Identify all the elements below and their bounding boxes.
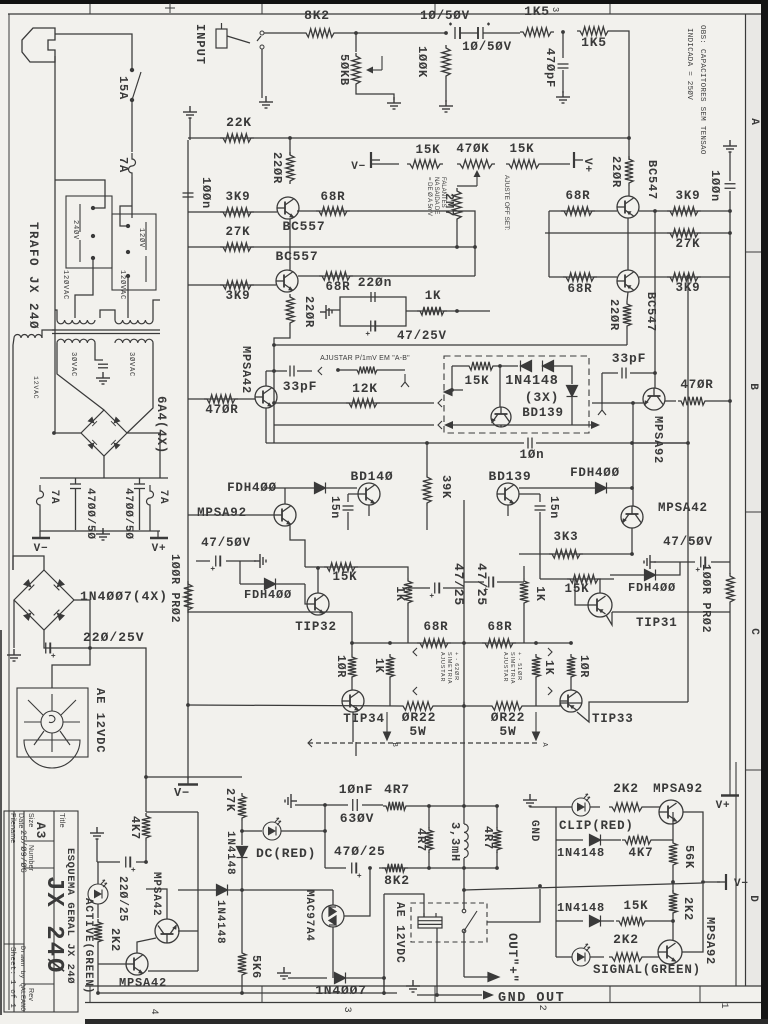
resistor 56K (669, 840, 677, 868)
wire center to relay (463, 868, 465, 909)
node filter bot a (427, 866, 431, 870)
wire 2K2 to mpsa92 (645, 806, 660, 808)
wire caps bottom join (40, 509, 160, 531)
svg-text:GND OUT: GND OUT (498, 991, 565, 1006)
wire 10nF row (295, 804, 348, 806)
trim arrow left b (413, 687, 417, 695)
node 15K signal (671, 919, 675, 923)
svg-text:15n: 15n (328, 496, 341, 519)
node feedback top (686, 275, 690, 279)
capacitor 47/25 b (484, 577, 494, 592)
capacitor 220n (371, 292, 375, 302)
ground pot (387, 97, 401, 109)
svg-text:1K: 1K (372, 658, 385, 673)
node bottom rail c (382, 991, 386, 995)
svg-text:1N4ØØ7: 1N4ØØ7 (315, 983, 367, 998)
svg-text:MPSA42: MPSA42 (658, 501, 708, 515)
wire signal led right (590, 956, 604, 958)
wire signal diode row (556, 920, 583, 922)
wire mpsa92c to rail (683, 812, 703, 880)
svg-text:V−: V− (734, 878, 749, 890)
svg-text:12K: 12K (352, 381, 378, 396)
border tick top (261, 4, 263, 14)
terminal V- stem (39, 531, 41, 538)
resistor 15K signal (616, 917, 648, 925)
bridge diode 1 (87, 416, 97, 426)
potentiometer 470K (457, 160, 495, 168)
wire bd139 base link (519, 493, 540, 495)
wire TIP31 top (599, 579, 601, 593)
node vas rail top (653, 209, 657, 213)
wire 10R left bottom (351, 680, 353, 690)
transformer primary winding 2 (115, 320, 153, 324)
svg-text:Rev: Rev (27, 988, 34, 1001)
resistor 220R b (286, 294, 294, 326)
ground 47/50 left (254, 554, 266, 568)
ground 100n right (723, 140, 737, 152)
resistor 68R mid right (482, 639, 516, 647)
svg-text:68R: 68R (568, 282, 593, 296)
diode 1N4148 clip (590, 835, 601, 846)
capacitor 33pF right (622, 368, 626, 379)
wire protect left rail (555, 807, 557, 957)
wire 4R7c leg2 (496, 852, 498, 868)
terminal V+ bottom (721, 770, 739, 796)
node 1K5 rail (627, 136, 631, 140)
border tick right (745, 511, 761, 513)
svg-text:AJUSTAR: AJUSTAR (439, 652, 445, 682)
resistor 3K9 b (220, 281, 254, 289)
wire relay coil down (436, 928, 438, 995)
resistor 220R c (625, 156, 633, 186)
resistor 1K left low (386, 654, 394, 680)
svg-text:Filename: Filename (9, 813, 16, 843)
node relay out (538, 884, 542, 888)
svg-text:8K2: 8K2 (384, 873, 410, 888)
border frame bottom outer line (85, 1002, 761, 1004)
resistor 4R7 a (383, 802, 409, 810)
wire 1K5 to collector rail (611, 31, 629, 160)
svg-text:A3: A3 (33, 822, 48, 839)
wire 33pF row left (266, 370, 287, 372)
resistor 10R left (348, 654, 356, 680)
wire clip gnd stem (530, 806, 556, 807)
wire fdh400 d row (610, 562, 680, 575)
wire 220R d top lead (627, 292, 628, 301)
resistor 68R c (561, 207, 595, 215)
node 470pF top (561, 30, 565, 34)
border tick right (745, 769, 761, 771)
svg-text:15K: 15K (624, 899, 649, 913)
node filter bot c (495, 866, 499, 870)
border frame right line lower (735, 762, 737, 986)
node 27K 2M7 (455, 245, 459, 249)
wire mid out rail (702, 881, 720, 883)
fuse 7A V+ rail (147, 485, 154, 509)
capacitor 15n right (535, 506, 546, 510)
svg-text:1N4148: 1N4148 (214, 900, 226, 944)
relay AE 12VDC dashed box (411, 903, 487, 942)
capacitor 10nF (353, 799, 358, 811)
svg-text:1ØØn: 1ØØn (708, 170, 722, 202)
svg-text:47/25: 47/25 (474, 563, 489, 606)
svg-text:OUT"+": OUT"+" (505, 933, 519, 983)
wire protect gnd (96, 839, 98, 862)
wire triac gate (344, 868, 370, 916)
switch 15A (130, 66, 141, 104)
wire 68R d row (549, 276, 617, 278)
svg-text:15n: 15n (547, 496, 560, 519)
transistor BC557 a (277, 197, 299, 219)
capacitor 47/25V a (366, 321, 376, 336)
svg-text:1K5: 1K5 (524, 4, 550, 19)
border tick top (434, 4, 436, 14)
svg-text:2K2: 2K2 (613, 932, 639, 947)
wire clip diode row (556, 839, 583, 841)
wire 2K2 sig to mpsa (645, 956, 659, 958)
svg-text:FDH4ØØ: FDH4ØØ (227, 481, 277, 495)
LED CLIP red (572, 794, 590, 816)
resistor 68R d (563, 273, 597, 281)
break arrow 33pF right (598, 402, 606, 415)
svg-text:JX 24Ø: JX 24Ø (40, 876, 67, 974)
wire 100K bottom (445, 79, 447, 102)
node ajustar (336, 368, 340, 372)
capacitor 4700/50 left (70, 478, 81, 530)
wire 27K row right (545, 232, 730, 234)
wire signal led left (556, 956, 572, 958)
transistor BD139 servo (491, 407, 511, 427)
node 100K top (444, 31, 448, 35)
node out rail bus (686, 441, 690, 445)
wire servo bottom row (452, 424, 592, 426)
wire plug to switch (55, 34, 132, 66)
wire jack contact stub (257, 36, 261, 41)
node TIP32 top (316, 566, 320, 570)
svg-text:3K9: 3K9 (226, 190, 251, 204)
svg-text:47ØØ/5Ø: 47ØØ/5Ø (122, 488, 134, 540)
node fdh400 right (630, 486, 634, 490)
resistor 15K servo (466, 362, 496, 370)
svg-text:1ØØK: 1ØØK (415, 46, 429, 78)
border frame right line (745, 14, 747, 986)
measure arrow down left (384, 712, 391, 740)
wire led active bottom (97, 904, 99, 918)
resistor 68R b (319, 272, 353, 280)
svg-text:1Ø/5ØV: 1Ø/5ØV (462, 40, 512, 54)
transistor TIP31 (588, 593, 612, 617)
wire aux bridge top (13, 556, 44, 570)
border frame top line (8, 13, 761, 15)
svg-text:MPSA42: MPSA42 (150, 872, 162, 916)
resistor 22K (220, 134, 254, 142)
capacitor 10/50V pair (449, 23, 490, 40)
svg-text:12ØVAC: 12ØVAC (61, 270, 70, 300)
wire secondary 2 ends (127, 343, 153, 433)
transformer secondary winding 1 (57, 339, 95, 343)
wire 2M7 down (456, 222, 458, 247)
transistor TIP34 (342, 690, 364, 712)
svg-text:OBS: CAPACITORES SEM TENSAO: OBS: CAPACITORES SEM TENSAO (698, 25, 706, 155)
trim arrow right b (548, 687, 552, 695)
transistor MPSA92 d (658, 940, 682, 964)
border tick top (89, 4, 91, 14)
wire BC547 a-b link (627, 218, 629, 270)
wire primary winding 2 left (100, 310, 115, 320)
capacitor 15n left (343, 506, 354, 510)
svg-text:15K: 15K (565, 582, 590, 596)
svg-text:24ØV: 24ØV (71, 220, 80, 240)
svg-text:SIMETRIA: SIMETRIA (509, 652, 515, 684)
wire mpsa92d to rail (682, 884, 703, 952)
svg-text:BD139: BD139 (488, 469, 531, 484)
svg-text:47ØØ/5Ø: 47ØØ/5Ø (84, 488, 96, 540)
wire MPSA92 right collector (665, 400, 676, 402)
wire 3K9 d row (639, 276, 730, 278)
wire 3K9 b row (188, 284, 276, 286)
wire MPSA42 right down (631, 528, 633, 554)
svg-text:BC547: BC547 (644, 292, 658, 332)
resistor 1K mid right (520, 578, 528, 606)
wire 12VAC down (13, 338, 14, 570)
wire cap left (97, 861, 120, 863)
wire 4R7b leg2 (428, 852, 430, 868)
node filter top b (462, 804, 466, 808)
wire 15K right row (540, 578, 614, 580)
wire 4R7c legs (496, 806, 498, 828)
relay coil (418, 913, 442, 928)
svg-text:V−: V− (351, 161, 366, 173)
wire mpsa b right (178, 930, 198, 932)
svg-text:56K: 56K (682, 845, 696, 869)
resistor 2K2 active (94, 919, 102, 945)
wire center tap down (463, 702, 465, 806)
border tick bottom (89, 986, 91, 1002)
wire left rail (187, 140, 189, 779)
svg-text:BC547: BC547 (645, 160, 659, 200)
svg-text:4R7: 4R7 (414, 828, 428, 852)
servo bottom left arrow (444, 421, 453, 429)
wire 0R22 right lead (525, 703, 582, 706)
wire 470pF top (562, 32, 564, 58)
svg-text:12VAC: 12VAC (32, 376, 39, 400)
svg-text:1Ø/5ØV: 1Ø/5ØV (420, 9, 470, 23)
diode 1N4007 protect (335, 973, 346, 984)
wire relay right (487, 889, 540, 922)
node out branch (462, 888, 466, 892)
wire dashed measure (308, 742, 540, 744)
wire 3K9 a row (188, 211, 277, 213)
servo left arrow (444, 389, 463, 396)
svg-text:15K: 15K (510, 142, 535, 156)
wire bottom rail protect (98, 992, 397, 994)
svg-text:= DE Ø A 5mV: = DE Ø A 5mV (426, 177, 432, 216)
wire fdh400 right row (519, 487, 632, 489)
resistor 15K right mid (567, 575, 601, 583)
wire main bus right (536, 442, 688, 444)
wire 470-25 left (325, 867, 346, 869)
measure arrow down right (533, 712, 540, 740)
svg-text:1N4148: 1N4148 (505, 374, 558, 389)
transistor MPSA42 right (621, 506, 643, 528)
wire mpsa vert (197, 812, 199, 971)
ground aux (7, 649, 21, 661)
wire 12K row (274, 402, 434, 404)
resistor 27K left (220, 243, 254, 251)
terminal V- offset (371, 152, 380, 168)
svg-text:1N4148: 1N4148 (224, 831, 236, 875)
wire mid caps b (464, 581, 484, 583)
diode 1N4148 e (237, 847, 248, 858)
wire MPSA92 left base (188, 514, 274, 516)
wire bridge left (54, 432, 81, 434)
wire triac top (332, 890, 334, 905)
wire secondary 1 left (57, 343, 104, 410)
transformer 12VAC winding (14, 335, 42, 338)
capacitor 10n bus (528, 438, 532, 449)
wire vminus node row (146, 776, 242, 778)
transistor MPSA92 c (659, 800, 683, 824)
wire 220R c lead (628, 186, 630, 196)
wire bottom rail to relay (383, 978, 385, 993)
border frame left line (8, 14, 10, 1010)
svg-text:22K: 22K (226, 115, 252, 130)
svg-text:12ØV: 12ØV (137, 228, 146, 248)
wire mpsa c base (98, 963, 126, 965)
node mpsa92 base row (631, 401, 635, 405)
bridge diode 4 (111, 440, 121, 450)
transistor MPSA92 left (274, 504, 296, 526)
svg-text:MPSA42: MPSA42 (119, 976, 167, 990)
svg-text:5K6: 5K6 (249, 955, 263, 979)
svg-text:Drawn by QALEANO: Drawn by QALEANO (18, 946, 26, 1011)
wire servo base vert (499, 366, 501, 407)
wire aux bridge bottom (44, 630, 90, 648)
wire 10R right bottom (570, 680, 572, 690)
border tick right (745, 251, 761, 253)
wire 220R a top lead (289, 138, 291, 152)
wire primary winding ends (55, 310, 57, 320)
wire aux to relay rail (90, 648, 146, 812)
svg-text:1K5: 1K5 (581, 35, 607, 50)
svg-text:3: 3 (550, 7, 560, 13)
svg-text:Sheet: 1 of 1: Sheet: 1 of 1 (8, 947, 16, 1008)
ground supply mid (96, 528, 110, 540)
svg-text:BC557: BC557 (275, 249, 318, 264)
LED ACTIVE green (88, 880, 108, 904)
title block outline (4, 811, 78, 1012)
svg-text:3K9: 3K9 (676, 189, 701, 203)
transistor MPSA92 right (643, 388, 665, 410)
svg-text:ØR22: ØR22 (402, 710, 436, 725)
resistor 470R right (678, 397, 708, 405)
svg-text:AJUSTAR P/1mV EM "A-B": AJUSTAR P/1mV EM "A-B" (320, 355, 410, 362)
svg-text:47ØpF: 47ØpF (543, 48, 557, 88)
wire 68R c row (549, 210, 617, 212)
svg-text:FDH4ØØ: FDH4ØØ (628, 581, 676, 595)
wire clip diode mid (601, 839, 621, 841)
svg-text:8K2: 8K2 (304, 8, 330, 23)
bridge rectifier 6A4(4X) (81, 410, 127, 456)
wire fdh400 c row (240, 583, 305, 585)
wire aux bridge right (74, 600, 90, 648)
capacitor 100n left (183, 193, 194, 197)
wire 33pF right row (602, 372, 618, 374)
svg-text:22Ø/25V: 22Ø/25V (83, 630, 145, 645)
wire 1K a row (406, 310, 457, 312)
capacitor 4700/50 right (134, 478, 145, 530)
wire TIP31 down (606, 612, 612, 625)
svg-text:63ØV: 63ØV (340, 811, 374, 826)
svg-text:FDH4ØØ: FDH4ØØ (244, 588, 292, 602)
resistor 0R22 right (489, 702, 525, 710)
wire main bus (266, 442, 524, 444)
svg-text:3K9: 3K9 (226, 289, 251, 303)
wire ajustar cont (380, 369, 405, 371)
resistor 15K offset left (407, 160, 443, 168)
wire mpsa c col (137, 938, 156, 953)
wire mid cell left (407, 606, 409, 643)
wire MPSA92 left emit (290, 524, 305, 567)
resistor 220R a (286, 152, 294, 184)
node 470R rail (728, 399, 732, 403)
diode 1N4148 servo 3 (567, 386, 578, 397)
wire bd140 emitter down (368, 505, 370, 516)
wire MPSA92 left col (284, 488, 286, 504)
svg-text:47Ø/25: 47Ø/25 (334, 844, 386, 859)
ground 100K (439, 100, 453, 112)
svg-text:1ØØR PRØ2: 1ØØR PRØ2 (168, 554, 181, 623)
resistor 2K2 e (669, 890, 677, 916)
svg-text:MPSA92: MPSA92 (197, 506, 247, 520)
svg-text:Title: Title (58, 813, 67, 828)
node bottom rail a (240, 991, 244, 995)
wire signal diode mid (601, 920, 614, 922)
wire secondary tap (95, 343, 103, 360)
svg-text:1K: 1K (393, 586, 406, 601)
svg-text:27K: 27K (226, 225, 251, 239)
svg-text:33pF: 33pF (283, 379, 317, 394)
svg-text:4R7: 4R7 (384, 782, 410, 797)
ground out (406, 980, 420, 992)
node 68R center (462, 641, 466, 645)
svg-text:27K: 27K (676, 237, 701, 251)
break arrow 33pF (318, 367, 322, 375)
wire zobel branch (324, 805, 326, 868)
bridge diode 3 (87, 440, 97, 450)
svg-text:V+: V+ (152, 543, 167, 555)
arrow GND OUT (483, 991, 494, 1000)
node led dc join (323, 829, 327, 833)
wire 15n left (347, 494, 349, 502)
wire 68R a row (297, 211, 475, 276)
wire 27K row left (188, 246, 475, 248)
node cap 220/25 (144, 860, 148, 864)
capacitor 220/25 protect (126, 857, 136, 872)
aux bridge diode 2 (54, 579, 65, 590)
ground 470pF (556, 91, 570, 103)
wire 10R left feed (351, 612, 353, 654)
transformer secondary winding 2 (115, 339, 153, 343)
wire emitter couple (274, 344, 627, 346)
wire left mid rail (188, 611, 352, 613)
wire TIP32 base (305, 584, 307, 604)
node 68R right (534, 641, 538, 645)
svg-text:AE 12VDC: AE 12VDC (93, 688, 107, 754)
border frame right gray margin (746, 14, 761, 986)
svg-text:MPSA92: MPSA92 (651, 416, 665, 464)
wire center vert (463, 500, 465, 706)
